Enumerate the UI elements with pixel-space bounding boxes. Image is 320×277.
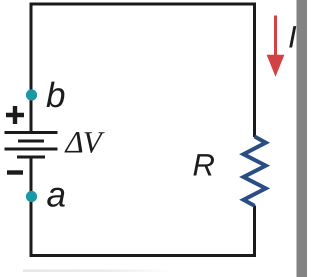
- svg-text:b: b: [46, 76, 65, 115]
- svg-text:a: a: [47, 176, 66, 215]
- svg-text:R: R: [193, 148, 215, 183]
- svg-text:ΔV: ΔV: [64, 125, 105, 160]
- svg-text:I: I: [288, 20, 297, 55]
